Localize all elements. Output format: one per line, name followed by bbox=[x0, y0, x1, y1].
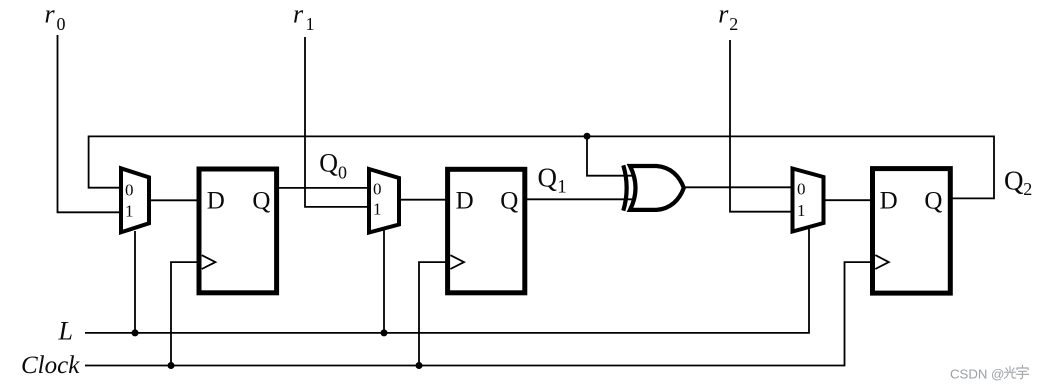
wire r2 lead (vertical from label, turn right into mux M3 input 1) bbox=[730, 40, 793, 212]
svg-text:Clock: Clock bbox=[21, 352, 80, 379]
D flip-flop U1 body bbox=[199, 169, 277, 293]
svg-text:1: 1 bbox=[306, 14, 315, 34]
svg-text:D: D bbox=[880, 187, 898, 214]
svg-text:2: 2 bbox=[729, 14, 738, 34]
node junction dot mux M2 select on L line bbox=[381, 329, 388, 336]
wire flip-flop U1 clock lead down to Clock line bbox=[171, 262, 199, 365]
wire Q1: flip-flop U2 Q output to XOR G1 lower input bbox=[525, 198, 637, 200]
wire feedback net: mux M1 input 0 up, across top, down to Q2 output wire bbox=[89, 136, 994, 198]
wire mux M1 output to flip-flop U1 D input bbox=[149, 199, 199, 201]
svg-text:0: 0 bbox=[338, 163, 347, 183]
watermark glyph guang bbox=[1005, 367, 1016, 379]
svg-text:1: 1 bbox=[557, 176, 567, 197]
node junction dot mux M1 select on L line bbox=[132, 329, 139, 336]
flip-flop U3 clock wedge bbox=[875, 255, 889, 269]
multiplexer M2 (2-to-1 mux trapezoid) bbox=[369, 169, 399, 233]
svg-text:0: 0 bbox=[125, 180, 134, 199]
wire XOR top input tap (down from top wire into XOR G1) bbox=[587, 136, 637, 176]
watermark glyph yu bbox=[1016, 365, 1028, 379]
wire L net: horizontal load line, right end turns up to mux M3 select bbox=[85, 229, 809, 333]
wire mux M2 output to flip-flop U2 D input bbox=[399, 199, 448, 201]
flip-flop U2 clock wedge bbox=[450, 255, 464, 269]
wire XOR G1 output to mux M3 input 0 bbox=[684, 186, 793, 188]
flip-flop U1 clock wedge bbox=[202, 255, 216, 269]
watermark CSDN @guangyu bbox=[950, 365, 1029, 381]
wire mux M2 select down to L line bbox=[383, 231, 385, 333]
node junction dot U1 clock on Clock line bbox=[168, 362, 175, 369]
XOR gate G1 leading input arc bbox=[623, 165, 626, 210]
svg-text:1: 1 bbox=[797, 201, 806, 220]
svg-text:Q: Q bbox=[500, 187, 518, 214]
svg-text:1: 1 bbox=[373, 200, 382, 219]
svg-text:1: 1 bbox=[125, 201, 134, 220]
D flip-flop U2 body bbox=[448, 169, 525, 292]
svg-text:Q: Q bbox=[252, 187, 270, 214]
svg-text:Q: Q bbox=[1004, 165, 1024, 195]
wire r1 lead (vertical from label, turn right into mux M2 input 1) bbox=[305, 37, 369, 207]
svg-text:r: r bbox=[45, 0, 56, 28]
svg-text:Q: Q bbox=[538, 163, 558, 193]
svg-text:CSDN @: CSDN @ bbox=[950, 367, 1004, 382]
svg-text:2: 2 bbox=[1023, 179, 1032, 199]
svg-text:r: r bbox=[293, 0, 304, 28]
wire r0 lead (vertical from label, turn right into mux M1 input 1) bbox=[58, 35, 122, 212]
XOR gate G1 body bbox=[630, 166, 684, 210]
wire Q0: flip-flop U1 Q output to mux M2 input 0 bbox=[277, 187, 369, 189]
svg-text:Q: Q bbox=[319, 148, 338, 177]
multiplexer M3 (2-to-1 mux trapezoid) bbox=[793, 169, 824, 232]
D flip-flop U3 body bbox=[873, 169, 951, 294]
wire flip-flop U2 clock lead down to Clock line bbox=[419, 262, 448, 365]
multiplexer M1 (2-to-1 mux trapezoid) bbox=[121, 168, 149, 232]
svg-text:L: L bbox=[58, 317, 73, 346]
svg-text:D: D bbox=[207, 187, 225, 214]
wire mux M3 output to flip-flop U3 D input bbox=[824, 199, 873, 201]
svg-text:0: 0 bbox=[797, 180, 806, 199]
svg-text:0: 0 bbox=[373, 180, 382, 199]
svg-text:Q: Q bbox=[924, 187, 942, 214]
svg-text:D: D bbox=[456, 187, 474, 214]
svg-text:r: r bbox=[718, 0, 729, 28]
wire mux M1 select down to L line bbox=[134, 231, 136, 333]
svg-text:0: 0 bbox=[57, 14, 66, 34]
wire Clock net: horizontal clock line, right end turns up into flip-flop U3 clock bbox=[85, 262, 873, 365]
node junction dot U2 clock on Clock line bbox=[416, 362, 423, 369]
node feedback tap junction dot on top wire bbox=[584, 133, 591, 140]
